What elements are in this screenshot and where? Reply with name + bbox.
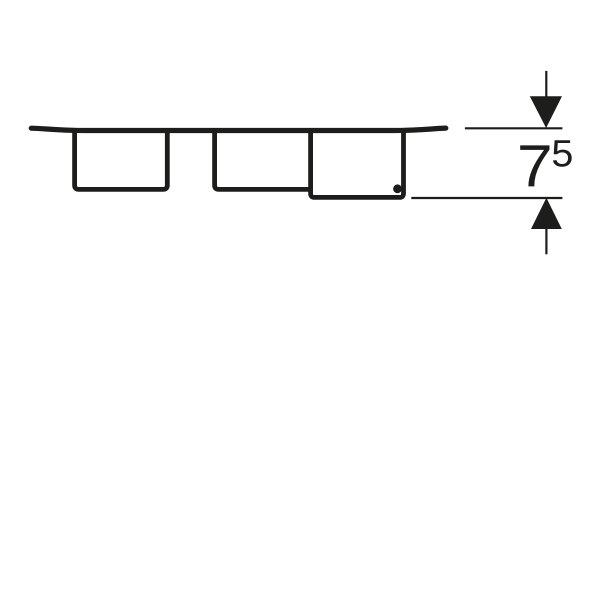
dimension text 7 bbox=[520, 145, 549, 186]
upper arrow leader line bbox=[545, 71, 547, 98]
dimension extension line top (slab top level) bbox=[465, 127, 563, 129]
upper arrowhead pointing down bbox=[530, 96, 562, 128]
box 2 (middle drawer outline) bbox=[215, 129, 311, 189]
dimension extension line bottom (box 3 bottom level) bbox=[411, 197, 562, 199]
dimension text superscript 5 bbox=[553, 140, 572, 167]
box 1 (left drawer outline) bbox=[75, 129, 168, 189]
drain dot inside box 3 bbox=[393, 184, 402, 193]
box 3 (right deeper box outline, shares left edge with box 2) bbox=[311, 129, 404, 197]
washbasin slab profile (top bar with upturned ends) bbox=[31, 128, 446, 130]
lower arrow leader line bbox=[545, 228, 547, 254]
lower arrowhead pointing up bbox=[531, 198, 562, 229]
